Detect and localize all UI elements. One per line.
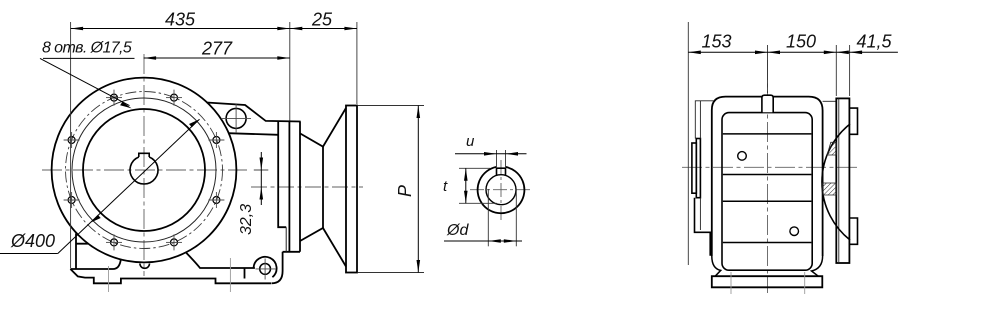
bottom right ear <box>245 252 283 283</box>
dimension 32,3 <box>238 152 268 235</box>
base foot centerlines <box>731 272 805 294</box>
dimension u <box>455 133 527 167</box>
boss circle bold <box>83 109 205 231</box>
bell trumpet <box>300 108 346 267</box>
body right edge and step <box>278 122 300 252</box>
bolt holes 8x <box>68 94 220 246</box>
ext lines side dims <box>688 22 849 265</box>
shaft outer circle with keyway gap <box>478 167 525 213</box>
leader 8 holes <box>40 40 135 109</box>
dimension P <box>358 106 424 273</box>
side body outline <box>712 97 823 277</box>
hatch band lower <box>822 183 836 195</box>
big bell arc <box>822 124 850 240</box>
svg-text:25: 25 <box>311 10 333 30</box>
shaft inner circle <box>486 175 516 205</box>
svg-text:153: 153 <box>701 32 731 52</box>
side view horizontal centerline <box>682 166 858 168</box>
ext line left 435 <box>70 22 72 268</box>
dimension 277 <box>144 39 290 60</box>
centerline vertical front view <box>143 54 145 276</box>
dimension 41,5 <box>836 32 898 55</box>
keyway <box>497 168 506 175</box>
bell axis centerline <box>251 186 363 188</box>
motor flange plate <box>346 106 357 273</box>
shaft section centerlines <box>470 160 532 221</box>
foot centerlines <box>109 258 231 292</box>
svg-text:Ø400: Ø400 <box>10 231 55 251</box>
bottom boss semicircle <box>140 264 150 269</box>
flange rear tabs <box>849 108 857 244</box>
svg-text:150: 150 <box>786 32 816 52</box>
top lug hole <box>226 108 246 128</box>
hatch band upper <box>827 142 836 155</box>
svg-text:8 отв. Ø17,5: 8 отв. Ø17,5 <box>42 40 132 57</box>
outer flange circle <box>52 78 237 263</box>
dimension t <box>443 168 497 203</box>
centerline horizontal front view <box>42 169 247 171</box>
bolt circle dash-dot <box>66 92 223 249</box>
side rounded rect <box>722 113 812 271</box>
dimension diameter d <box>444 189 522 246</box>
side face holes <box>738 152 747 161</box>
base bottom profile <box>70 234 271 284</box>
dimension 150 <box>768 32 837 55</box>
svg-text:P: P <box>395 185 415 197</box>
svg-text:Ød: Ød <box>446 222 469 239</box>
svg-text:41,5: 41,5 <box>856 32 892 52</box>
dimension 25 <box>290 10 357 31</box>
flange plate side <box>836 98 849 263</box>
side body thin top lines <box>695 101 836 139</box>
side base <box>712 276 823 287</box>
dimension 153 <box>688 32 767 55</box>
ext line 25 right <box>356 22 358 104</box>
svg-text:277: 277 <box>201 39 233 59</box>
bolt hole tick marks <box>64 90 225 251</box>
svg-text:u: u <box>466 133 475 150</box>
flange recess thin circle <box>72 98 216 242</box>
flange plate inner thin line <box>838 98 840 263</box>
ear hole <box>260 264 271 275</box>
side view vertical centerline <box>767 60 769 293</box>
dimension 435 <box>71 10 290 31</box>
shaft hole with keyway <box>130 153 158 184</box>
left shaft stub <box>692 139 710 256</box>
ear hole ticks <box>256 259 276 280</box>
side top tab <box>762 95 773 112</box>
leader diameter 400 <box>0 119 200 253</box>
svg-text:32,3: 32,3 <box>238 204 255 235</box>
top lug outline <box>207 103 301 135</box>
ext line right 435/25 <box>289 22 291 121</box>
svg-text:435: 435 <box>165 10 196 30</box>
top lug hole centerlines <box>221 104 251 133</box>
side face horizontal lines <box>723 134 812 243</box>
